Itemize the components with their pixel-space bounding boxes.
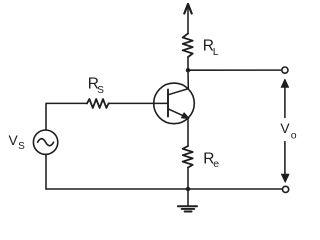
arrow Vo down <box>281 142 289 183</box>
node emitter junction <box>186 187 190 191</box>
supply arrow <box>184 4 191 34</box>
svg-text:S: S <box>97 85 104 96</box>
terminal top output <box>282 67 288 73</box>
transistor Q1 <box>154 83 195 124</box>
svg-text:e: e <box>213 158 219 170</box>
wire RL to collector node <box>187 57 189 70</box>
node collector junction <box>186 68 190 72</box>
wire source to bottom rail <box>45 154 47 189</box>
wire emitter <box>187 118 189 146</box>
resistor RS <box>87 99 109 108</box>
source VS <box>33 130 57 154</box>
svg-text:L: L <box>213 46 219 58</box>
svg-text:o: o <box>291 129 297 141</box>
resistor RE <box>183 146 193 168</box>
svg-text:V: V <box>9 133 19 148</box>
arrow Vo up <box>281 79 289 117</box>
resistor RL <box>183 34 193 58</box>
terminal bottom output <box>283 186 289 192</box>
wire RE to bottom rail <box>187 168 189 190</box>
ground <box>178 189 197 212</box>
svg-text:V: V <box>280 121 290 136</box>
wire collector <box>187 70 189 88</box>
wire base <box>109 102 168 104</box>
svg-text:S: S <box>18 141 25 152</box>
wire RS to source <box>46 103 87 130</box>
wire bottom rail <box>46 188 282 190</box>
wire collector node to top terminal <box>188 69 282 71</box>
